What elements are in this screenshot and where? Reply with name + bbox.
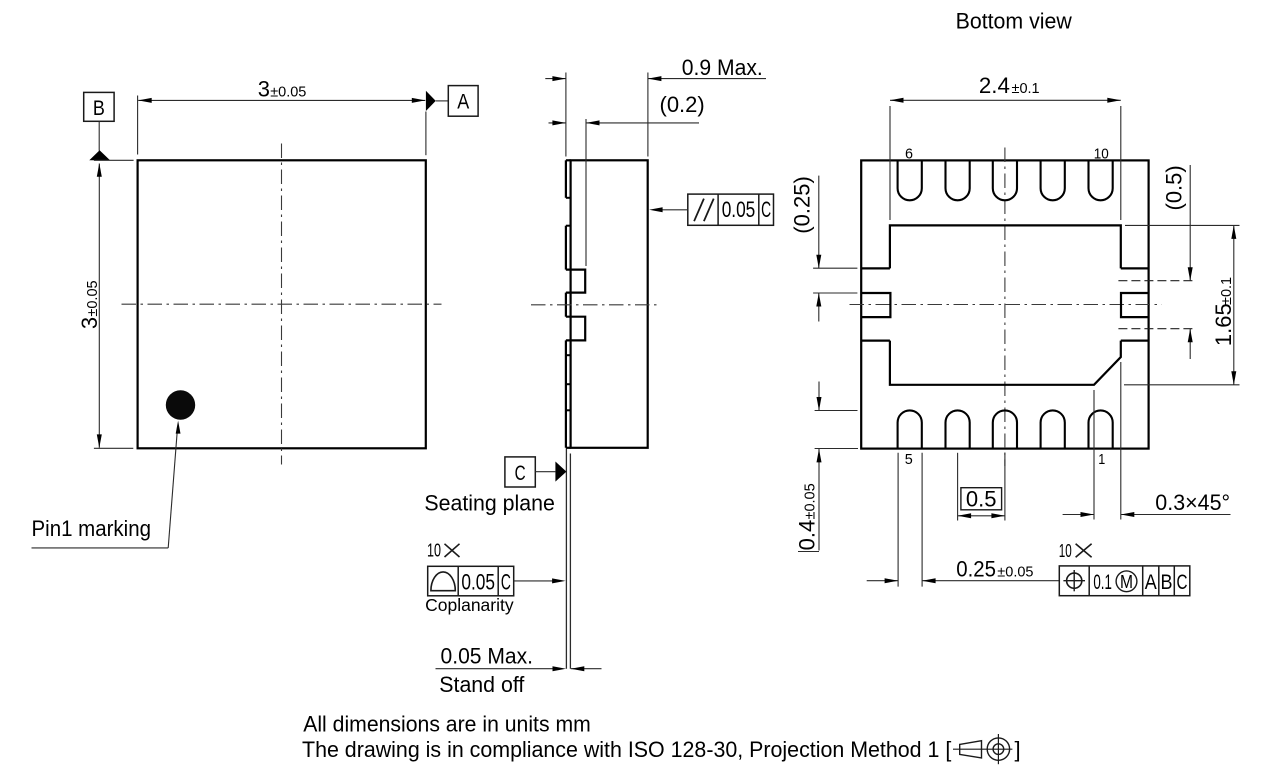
dimension 0.9 Max: extension lines bbox=[565, 73, 567, 157]
svg-text:0.25: 0.25 bbox=[956, 557, 996, 582]
parallelism feature control frame // 0.05 C bbox=[688, 194, 774, 225]
svg-text:(0.5): (0.5) bbox=[1162, 165, 1187, 210]
position feature control frame 0.1 M A B C bbox=[1059, 566, 1190, 596]
coplanarity feature control frame 0.05 C bbox=[428, 566, 514, 596]
svg-text:C: C bbox=[515, 462, 526, 485]
parallelism frame leader arrow bbox=[662, 209, 688, 211]
svg-text:10: 10 bbox=[1059, 541, 1072, 561]
dimension (0.25): extension lines bbox=[813, 267, 857, 269]
side terminal right bbox=[1121, 293, 1149, 317]
top view package body outline bbox=[138, 160, 426, 448]
svg-text:]: ] bbox=[1015, 737, 1021, 762]
material condition M bbox=[1116, 571, 1137, 592]
dimension (0.2): dimension line and arrows bbox=[549, 122, 566, 124]
dimension 1.65±0.1: dimension line and arrows bbox=[1233, 225, 1235, 384]
svg-text:The drawing is in compliance w: The drawing is in compliance with ISO 12… bbox=[302, 737, 951, 762]
dimension 0.5 pitch: dimension line and arrows bbox=[958, 515, 1005, 517]
svg-text:0.05 Max.: 0.05 Max. bbox=[441, 644, 534, 669]
dimension (0.5): dimension line and arrows bbox=[1189, 165, 1191, 281]
svg-text:Seating plane: Seating plane bbox=[424, 491, 555, 516]
dimension 3±0.05 horizontal: extension lines bbox=[137, 96, 139, 155]
svg-text:0.05: 0.05 bbox=[461, 569, 495, 594]
dimension 0.05 Max stand off: lines and arrows bbox=[436, 668, 554, 670]
hidden lead width dashed lines bbox=[1118, 280, 1194, 282]
svg-text:M: M bbox=[1120, 571, 1133, 592]
side recess lines left bbox=[861, 267, 890, 269]
dimension 3±0.05 vertical: dimension line and arrows bbox=[98, 164, 100, 448]
svg-text:Stand off: Stand off bbox=[439, 672, 525, 697]
svg-text:10: 10 bbox=[1094, 145, 1109, 162]
dimension 0.25±0.05: extension lines bbox=[897, 453, 899, 587]
top view vertical centerline bbox=[281, 144, 283, 465]
dimension 0.3x45: dimension line and arrows bbox=[1063, 514, 1094, 516]
datum C symbol: box, leader and filled triangle bbox=[505, 457, 535, 487]
svg-text:A: A bbox=[457, 91, 469, 114]
bottom edge extension line (left of square) bbox=[94, 447, 133, 449]
datum B symbol: box, leader and filled triangle bbox=[84, 92, 114, 121]
pin1 marking leader bbox=[32, 547, 169, 549]
svg-text:±0.05: ±0.05 bbox=[270, 84, 306, 100]
side view top edge step bbox=[566, 159, 571, 161]
bottom view package outline bbox=[861, 160, 1148, 448]
svg-text:3: 3 bbox=[258, 76, 270, 101]
svg-text:6: 6 bbox=[905, 145, 913, 162]
svg-text:1.65: 1.65 bbox=[1211, 303, 1236, 346]
svg-text:C: C bbox=[1177, 571, 1188, 594]
bottom view vertical centerline bbox=[1004, 148, 1006, 467]
svg-text:±0.05: ±0.05 bbox=[803, 483, 819, 519]
bottom view horizontal centerline bbox=[850, 304, 1162, 306]
side view lead flank line segments bbox=[565, 160, 567, 198]
svg-text:(0.2): (0.2) bbox=[660, 92, 705, 117]
dimension 0.25±0.05: dimension line and arrows bbox=[867, 580, 898, 582]
side view horizontal centerline bbox=[531, 304, 661, 306]
svg-text:Coplanarity: Coplanarity bbox=[425, 595, 514, 615]
side terminal left bbox=[861, 293, 890, 317]
coplanarity frame leader arrow bbox=[514, 580, 553, 582]
svg-text:(0.25): (0.25) bbox=[790, 176, 815, 233]
svg-text:5: 5 bbox=[905, 451, 913, 468]
svg-text:Bottom view: Bottom view bbox=[956, 8, 1072, 33]
svg-text:0.3×45°: 0.3×45° bbox=[1155, 490, 1230, 515]
svg-text:±0.05: ±0.05 bbox=[997, 565, 1033, 581]
side view lead edge ticks bbox=[566, 197, 571, 199]
dimension 0.3x45: extension lines bbox=[1093, 390, 1095, 520]
svg-text:10: 10 bbox=[427, 541, 441, 561]
svg-text:±0.05: ±0.05 bbox=[85, 280, 101, 316]
svg-text:B: B bbox=[93, 97, 105, 120]
svg-text:B: B bbox=[1161, 571, 1173, 594]
svg-text:0.5: 0.5 bbox=[966, 486, 997, 511]
bottom row terminals 5..1 (U-shapes) bbox=[898, 410, 922, 448]
dimension 0.9 Max: dimension line and arrows bbox=[545, 78, 566, 80]
svg-text:2.4: 2.4 bbox=[979, 73, 1010, 98]
dimension (0.25): dimension line and arrows bbox=[818, 176, 820, 269]
svg-text:0.4: 0.4 bbox=[795, 520, 820, 551]
top view horizontal centerline bbox=[122, 303, 442, 305]
svg-text:C: C bbox=[761, 197, 771, 222]
datum A symbol: filled triangle, connector and box bbox=[426, 91, 436, 111]
svg-text:All dimensions are in units mm: All dimensions are in units mm bbox=[303, 711, 591, 736]
svg-text:0.1: 0.1 bbox=[1093, 571, 1112, 594]
side view bottom edge step bbox=[566, 447, 571, 449]
dimension 2.4±0.1: dimension line and arrows bbox=[890, 99, 1121, 101]
position symbol bbox=[1067, 573, 1082, 588]
side view middle lead bump upper bbox=[566, 270, 585, 293]
dimension 0.4±0.05: dimension line and arrows bbox=[818, 382, 820, 411]
projection method symbol: cone bbox=[960, 741, 982, 758]
seating plane lines bbox=[565, 449, 567, 669]
dimension 1.65±0.1: extension lines bbox=[1125, 224, 1240, 226]
svg-text:3: 3 bbox=[77, 317, 102, 329]
dimension (0.2): extension line bbox=[585, 119, 587, 266]
svg-text:Pin1 marking: Pin1 marking bbox=[32, 516, 152, 541]
svg-text:±0.1: ±0.1 bbox=[1219, 277, 1235, 305]
svg-text:1: 1 bbox=[1098, 451, 1105, 468]
dimension 0.5 pitch: extension lines bbox=[957, 453, 959, 521]
svg-text:0.9 Max.: 0.9 Max. bbox=[682, 55, 763, 80]
top edge extension line (left of square) bbox=[94, 159, 134, 161]
projection method symbol: crosshair circles bbox=[953, 748, 1012, 750]
side recess lines right bbox=[1121, 267, 1149, 269]
side view package body outline bbox=[571, 160, 648, 448]
pin1 marking dot bbox=[166, 390, 195, 419]
svg-text:C: C bbox=[501, 569, 511, 594]
dimension 0.4±0.05: extension lines bbox=[815, 410, 858, 412]
dimension 0.5 pitch: boxed value bbox=[961, 488, 1002, 510]
exposed pad outline with pin1 chamfer bbox=[890, 225, 1121, 268]
dimension 3±0.05 horizontal: dimension line and arrows bbox=[138, 99, 425, 101]
dimension 2.4±0.1: extension lines bbox=[889, 106, 891, 220]
svg-text:A: A bbox=[1145, 571, 1157, 594]
side view middle lead bump lower bbox=[566, 317, 585, 341]
svg-text:0.05: 0.05 bbox=[722, 197, 756, 222]
svg-text:±0.1: ±0.1 bbox=[1012, 81, 1040, 97]
top row terminals 6..10 (U-shapes) bbox=[898, 161, 922, 200]
